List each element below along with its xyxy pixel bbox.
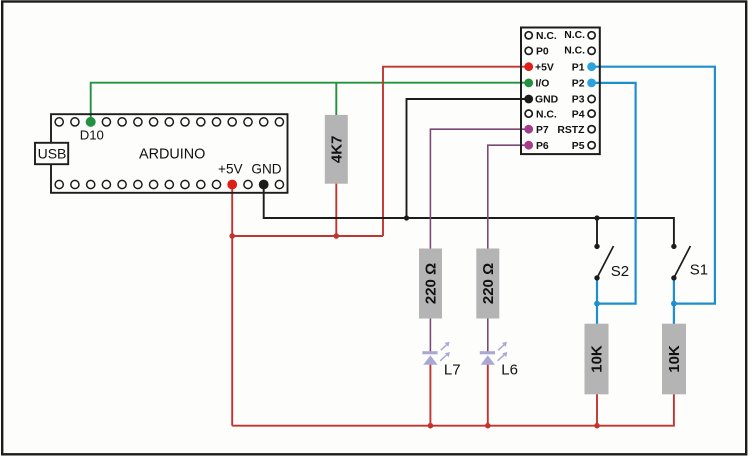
wire red bottom rail (232, 394, 674, 426)
svg-text:P4: P4 (572, 109, 585, 120)
module pin P3 (588, 95, 595, 102)
wire red below LED L6 (487, 363, 489, 426)
wire blue P2 to S2 (592, 83, 636, 304)
wire purple P6 to 220R (488, 145, 529, 249)
svg-text:GND: GND (535, 95, 559, 106)
svg-text:10K: 10K (666, 345, 683, 373)
pin arduino GND (259, 180, 269, 190)
svg-text:S2: S2 (611, 263, 629, 280)
svg-text:N.C.: N.C. (536, 109, 557, 120)
svg-text:220 Ω: 220 Ω (480, 263, 497, 304)
LED L6 (480, 342, 508, 365)
junction blue S1 (671, 301, 677, 307)
module pin P2 (587, 79, 596, 88)
junction red 4K7/rail (334, 233, 340, 239)
module pin RSTZ (588, 126, 595, 133)
wire red middle rail (232, 235, 383, 237)
wire blue P1 to S1 (592, 67, 715, 304)
wire blue S2 bottom (596, 278, 598, 325)
resistor R3 220ohm right (476, 249, 499, 319)
resistor R4 10K left (585, 324, 609, 395)
module pin GND (524, 95, 533, 104)
svg-text:L6: L6 (501, 362, 518, 379)
wire red below LED L7 (429, 363, 431, 426)
LED L7 (422, 342, 450, 365)
arduino top pin row (55, 118, 283, 126)
module pin NC row1 right (588, 32, 595, 39)
module pin I/O (524, 79, 533, 88)
junction black GND rail (404, 215, 409, 220)
svg-text:P3: P3 (572, 95, 585, 106)
module pin P7 (524, 125, 533, 134)
wire red 4K7 bottom (335, 183, 337, 236)
svg-text:N.C.: N.C. (536, 31, 557, 42)
svg-text:10K: 10K (589, 345, 606, 373)
module pin P1 (587, 62, 596, 71)
wire green D10 to I/O (91, 83, 529, 122)
junction red L6/bottom rail (485, 423, 491, 429)
module pin +5V (524, 62, 533, 71)
svg-text:GND: GND (251, 162, 281, 177)
arduino body fill (51, 114, 288, 193)
arduino bottom pin row (55, 180, 283, 188)
svg-text:P2: P2 (572, 79, 585, 90)
junction black S2 (594, 215, 599, 220)
svg-text:4K7: 4K7 (329, 136, 346, 164)
module pin P6 (524, 141, 533, 150)
junction red rails (229, 233, 235, 239)
wire black S2 drop (596, 218, 598, 245)
wire red +5V module to middle rail (383, 67, 529, 236)
switch S2 (594, 244, 613, 281)
svg-text:USB: USB (38, 146, 67, 162)
junction red 10K/bottom rail (594, 423, 600, 429)
svg-text:RSTZ: RSTZ (557, 125, 585, 136)
module pin NC row2 right (588, 47, 595, 54)
module pin P5 (588, 142, 595, 149)
wire red below 10K left (596, 394, 598, 426)
svg-text:+5V: +5V (535, 62, 554, 73)
svg-text:P1: P1 (572, 62, 585, 73)
svg-text:S1: S1 (690, 262, 708, 279)
module pin P0 (525, 47, 532, 54)
pin D10 (86, 117, 96, 127)
switch S1 (671, 244, 690, 281)
svg-text:+5V: +5V (218, 162, 243, 177)
wire blue S1 bottom (673, 278, 675, 325)
svg-text:D10: D10 (80, 128, 104, 143)
wire green branch to 4K7 (335, 83, 337, 116)
junction red L7/bottom rail (428, 423, 434, 429)
junction blue S2 (594, 301, 600, 307)
module pin NC row1 left (525, 32, 532, 39)
wire red arduino +5V down (231, 185, 233, 426)
pin arduino +5V (227, 180, 237, 190)
svg-text:N.C.: N.C. (564, 30, 585, 41)
module body fill (521, 28, 600, 155)
resistor R2 220ohm left (419, 249, 442, 319)
svg-text:P7: P7 (536, 125, 549, 136)
wire black GND rail (264, 185, 674, 245)
arduino U1 body (51, 114, 288, 193)
svg-text:ARDUINO: ARDUINO (139, 147, 205, 163)
svg-text:L7: L7 (444, 362, 461, 379)
module pin P4 (588, 110, 595, 117)
svg-text:P6: P6 (536, 141, 549, 152)
svg-text:P0: P0 (536, 47, 549, 58)
module U2 body (521, 28, 600, 155)
usb connector (35, 143, 68, 164)
svg-text:I/O: I/O (536, 79, 550, 90)
wire purple 220R to LED L6 (487, 318, 489, 352)
svg-text:N.C.: N.C. (564, 46, 585, 57)
wire purple 220R to LED L7 (429, 318, 431, 352)
resistor R1 4K7 (325, 115, 348, 184)
svg-text:P5: P5 (572, 141, 585, 152)
wire black module GND (407, 99, 529, 218)
svg-text:220 Ω: 220 Ω (423, 263, 440, 304)
module pin NC row6 left (525, 110, 532, 117)
wire purple P7 to 220R (430, 129, 528, 249)
resistor R5 10K right (662, 324, 686, 395)
